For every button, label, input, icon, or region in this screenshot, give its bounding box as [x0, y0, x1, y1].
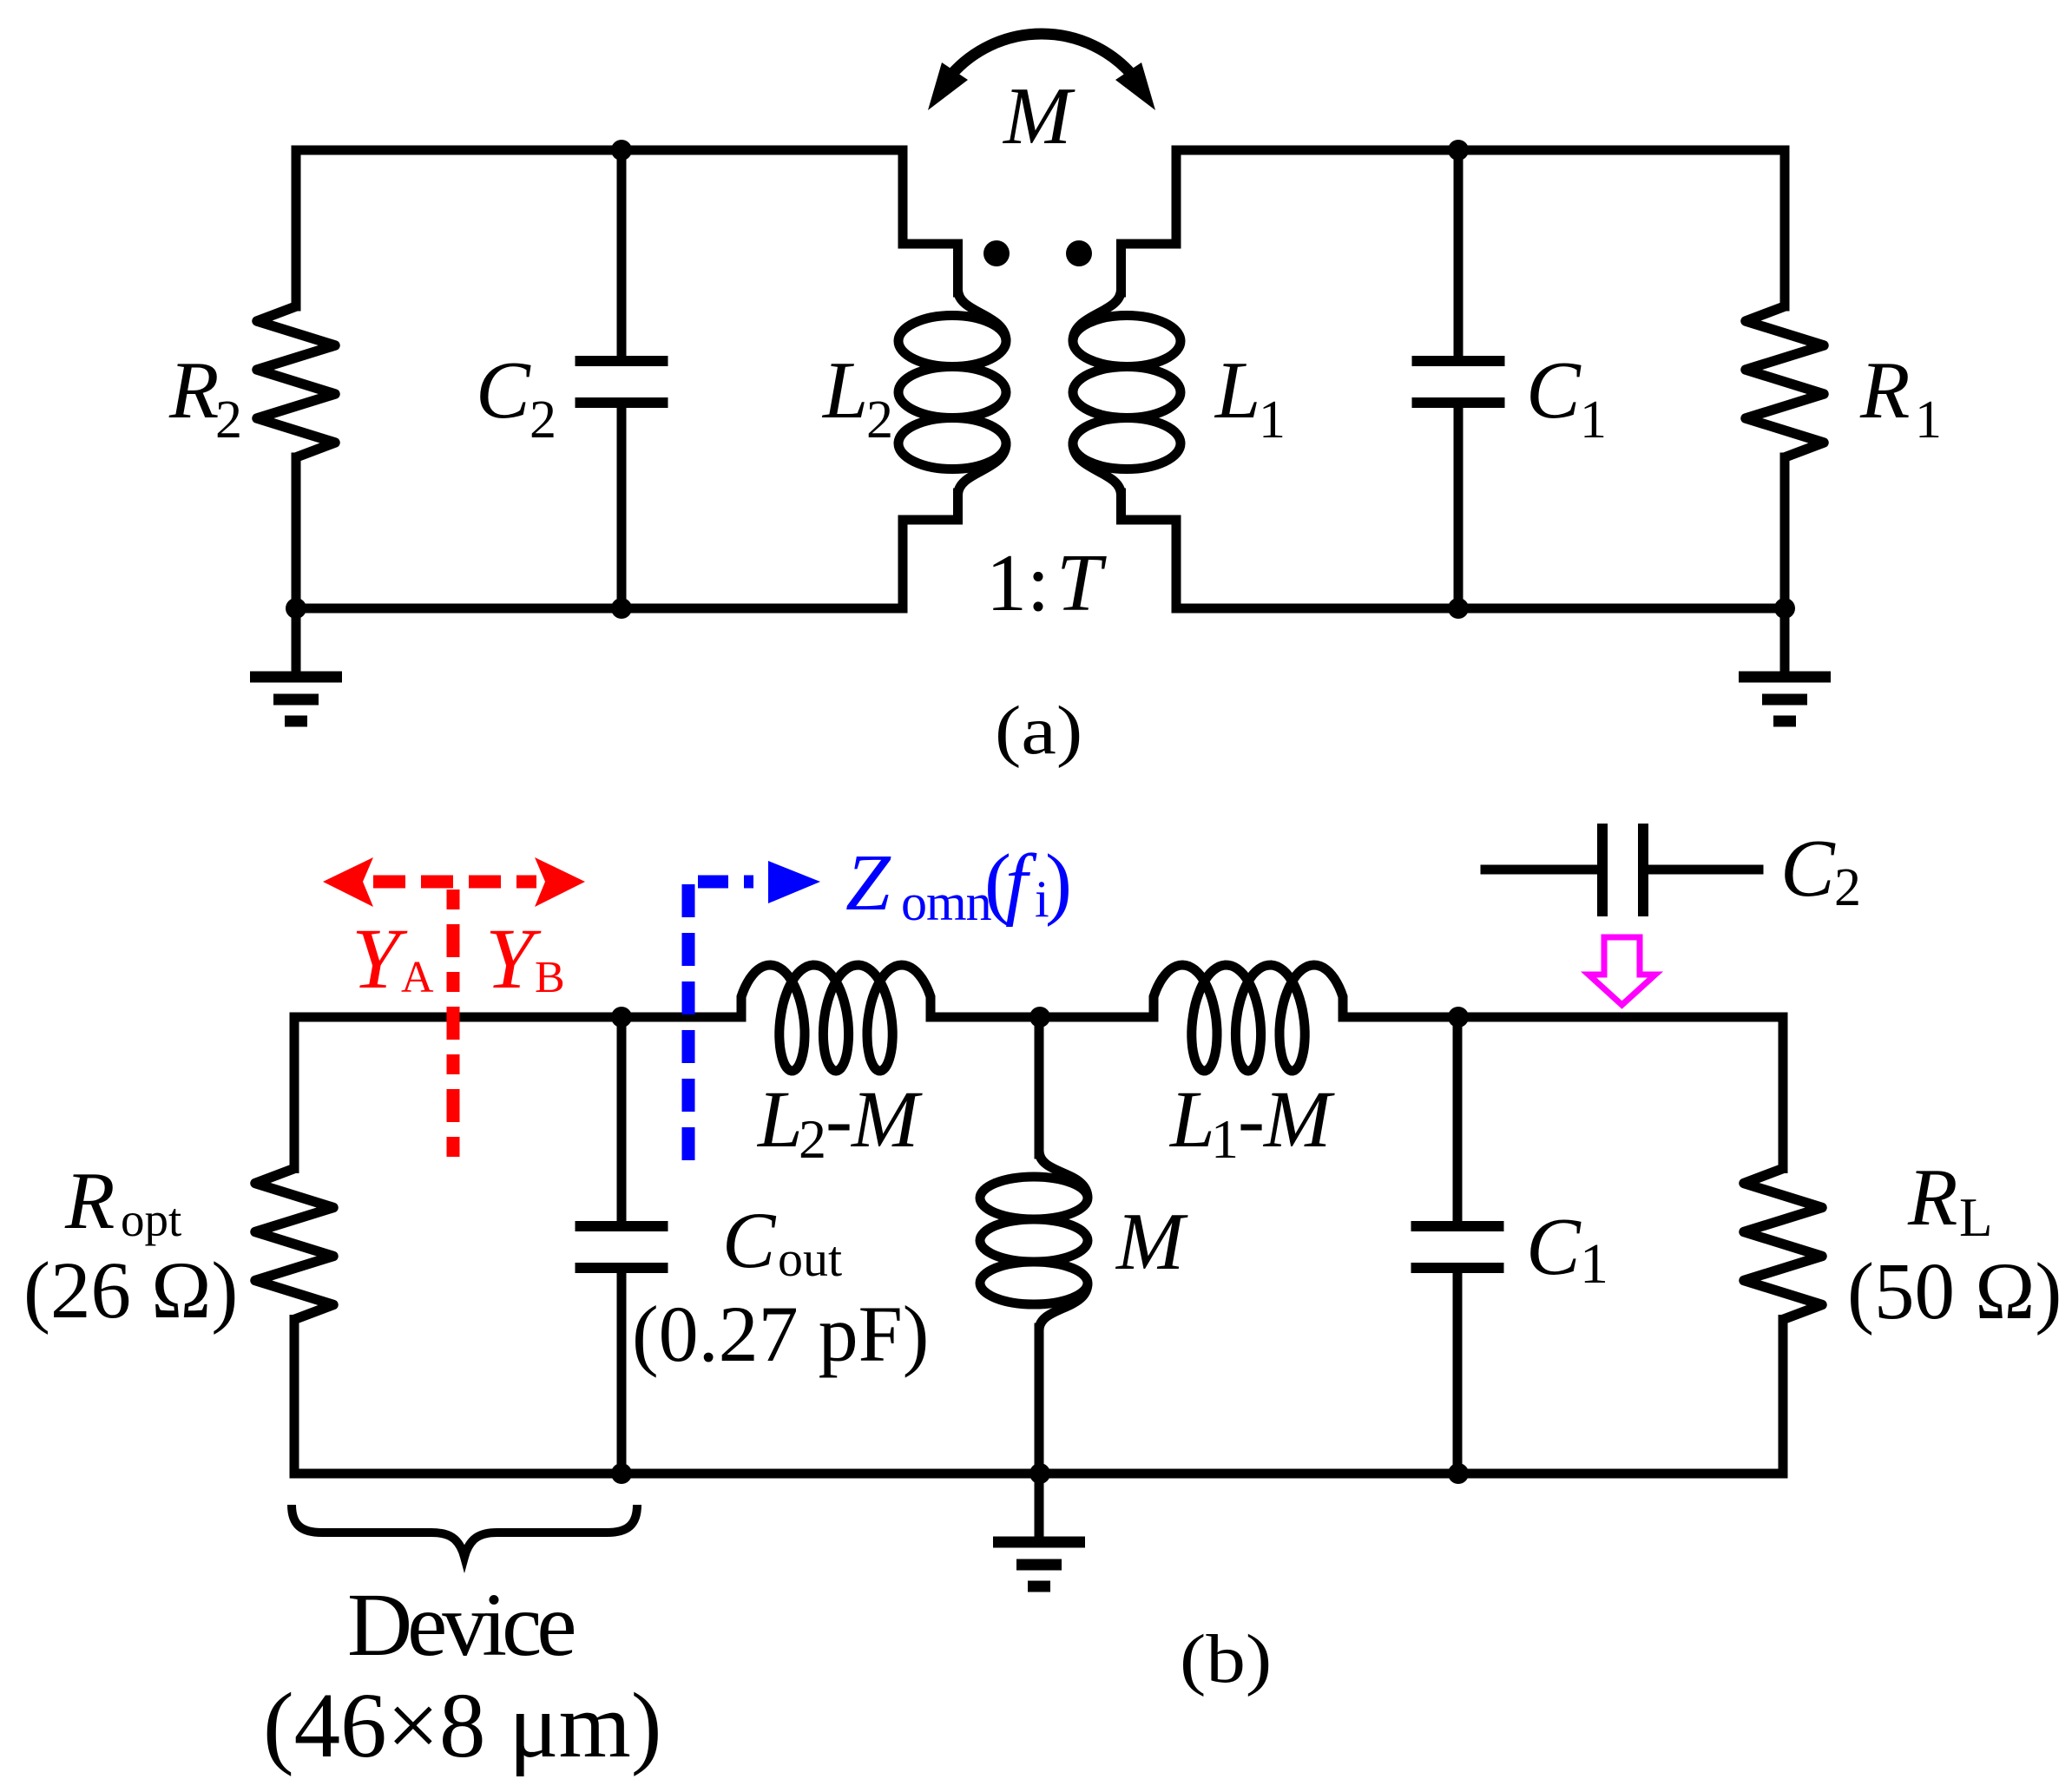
red dashed reference plane YA/YB [323, 857, 585, 1167]
svg-text:Y: Y [352, 910, 408, 1007]
svg-text:-: - [1238, 1075, 1265, 1165]
svg-text:M: M [1002, 71, 1075, 161]
svg-text:L: L [1214, 345, 1260, 436]
capacitor C1 plates (circuit b) [1411, 1226, 1504, 1268]
inductor M branch wires [1035, 1017, 1044, 1474]
inductor L2 coil [898, 290, 1006, 496]
svg-text:opt: opt [121, 1193, 181, 1246]
svg-text:L: L [1168, 1075, 1215, 1165]
svg-text:C: C [1780, 824, 1836, 914]
blue dashed Zomn marker [688, 861, 820, 1167]
ground right (circuit a) [1739, 608, 1831, 721]
inductor M coil [980, 1151, 1088, 1330]
svg-text:L: L [1959, 1187, 1992, 1248]
svg-text:2: 2 [799, 1108, 826, 1170]
svg-text:1:: 1: [986, 538, 1049, 628]
svg-text:(46×8 μm): (46×8 μm) [263, 1675, 661, 1777]
capacitor C1 plates (circuit a) [1412, 361, 1505, 403]
svg-text:R: R [64, 1156, 115, 1246]
resistor R1 zigzag [1746, 306, 1824, 457]
svg-text:f: f [1005, 838, 1037, 928]
svg-text:Z: Z [845, 838, 891, 928]
svg-text:L: L [756, 1075, 803, 1165]
capacitor Cout branch wires [617, 1017, 627, 1474]
svg-text:(0.27 pF): (0.27 pF) [632, 1290, 929, 1378]
capacitor Cout plates [576, 1226, 668, 1268]
svg-text:(a): (a) [995, 692, 1082, 769]
svg-text:1: 1 [1211, 1108, 1239, 1170]
svg-text:R: R [168, 345, 219, 436]
svg-text:omn: omn [901, 874, 992, 931]
resistor Ropt zigzag [255, 1169, 333, 1320]
inductor L1-M coil [1154, 965, 1343, 1071]
svg-text:T: T [1056, 538, 1107, 628]
resistor RL zigzag [1744, 1169, 1822, 1320]
svg-text:M: M [850, 1075, 923, 1165]
svg-text:L: L [821, 345, 868, 436]
circuit (a) top rail right segment [1176, 146, 1785, 155]
svg-text:1: 1 [1259, 391, 1286, 450]
svg-text:(b): (b) [1180, 1620, 1272, 1697]
ground (circuit b) [993, 1474, 1085, 1586]
mutual coupling curved arrow M [951, 34, 1132, 75]
magenta insertion arrow [1589, 937, 1655, 1005]
inductor L1 wires (transformer right) [1122, 150, 1177, 608]
circuit (b) top rail segments [294, 1013, 1783, 1022]
inductor L1 coil [1073, 290, 1181, 496]
circuit (a) top rail left segment [296, 146, 903, 155]
capacitor C2 branch wires [617, 150, 627, 608]
svg-text:C: C [1526, 1202, 1582, 1292]
svg-text:(26 Ω): (26 Ω) [23, 1246, 238, 1336]
inductor L2 wires (transformer left) [903, 150, 958, 608]
svg-text:2: 2 [215, 391, 242, 450]
resistor R2 zigzag [257, 306, 335, 457]
svg-text:-: - [826, 1075, 852, 1165]
svg-text:C: C [722, 1196, 777, 1284]
transformer polarity dot right [1066, 240, 1092, 266]
svg-text:C: C [476, 345, 531, 436]
capacitor C2 plates [576, 361, 668, 403]
resistor R2 branch wires [292, 150, 301, 608]
circuit (b) bottom rail [294, 1469, 1783, 1479]
resistor RL branch wires [1779, 1017, 1788, 1474]
svg-text:Device: Device [347, 1575, 574, 1675]
svg-text:M: M [1115, 1197, 1188, 1287]
ground left (circuit a) [250, 608, 342, 721]
circuit (a) bottom rail right segment [1176, 604, 1785, 614]
resistor Ropt branch wires [290, 1017, 299, 1474]
svg-text:B: B [535, 953, 565, 1002]
svg-text:R: R [1907, 1152, 1957, 1243]
svg-text:out: out [778, 1231, 842, 1287]
device underbrace [292, 1505, 637, 1557]
transformer polarity dot left [983, 240, 1010, 266]
inductor L2-M coil [741, 965, 931, 1071]
svg-text:2: 2 [530, 391, 556, 450]
node dots circuit b [611, 1007, 632, 1027]
capacitor C2 floating symbol wires [1485, 865, 1759, 875]
svg-text:C: C [1526, 345, 1582, 436]
capacitor C1 branch wires (circuit a) [1454, 150, 1464, 608]
svg-text:2: 2 [866, 391, 893, 450]
node dots circuit a [611, 140, 632, 161]
svg-text:1: 1 [1580, 391, 1607, 450]
svg-text:2: 2 [1834, 858, 1861, 917]
capacitor C2 floating plates [1602, 824, 1643, 916]
svg-text:1: 1 [1580, 1232, 1608, 1296]
svg-text:1: 1 [1915, 391, 1942, 450]
svg-text:Y: Y [485, 910, 542, 1007]
resistor R1 branch wires [1780, 150, 1790, 608]
svg-text:M: M [1262, 1075, 1335, 1165]
svg-text:(50 Ω): (50 Ω) [1847, 1247, 2062, 1336]
svg-text:): ) [1045, 838, 1072, 928]
svg-text:A: A [401, 953, 434, 1002]
svg-text:R: R [1859, 345, 1910, 436]
circuit (a) bottom rail left segment [296, 604, 903, 614]
capacitor C1 branch wires (circuit b) [1453, 1017, 1463, 1474]
